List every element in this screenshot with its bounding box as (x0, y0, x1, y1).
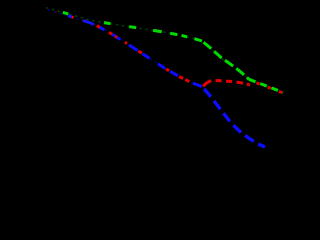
green dashed curve, gentle section (104, 23, 202, 41)
red dashed curve, right tail (fills green gaps) (249, 80, 283, 93)
red dashed curve, faint left section (one dash) (48, 10, 100, 28)
faint dark red dots on combined left section (48, 10, 97, 26)
green curve faint underlay (46, 8, 283, 93)
green dashed curve, right tail (interleaved with red) (249, 79, 283, 92)
blue dashed curve, main descending section (97, 26, 202, 87)
red dashed curve, flat branch after junction merging into tail (203, 80, 250, 86)
blue dashed curve, steep tail after junction (202, 87, 265, 147)
red dashed curve, main descending section (fills blue gaps) (97, 26, 202, 87)
blue dashed curve, faint left section (two bright dashes) (48, 10, 97, 26)
red+blue combined curve faint underlay (48, 10, 202, 87)
green dashed curve, steep middle section (202, 41, 249, 79)
green dashed curve, faint left section (one bright dash) (46, 8, 104, 23)
